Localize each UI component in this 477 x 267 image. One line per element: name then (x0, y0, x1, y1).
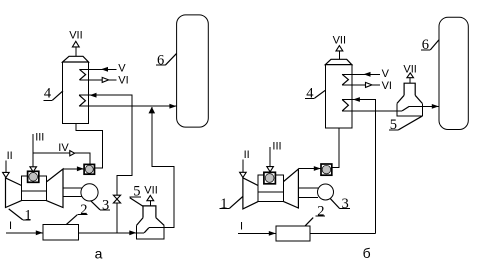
svg-text:II: II (7, 150, 13, 162)
turbine 1 box midline (b) (258, 191, 284, 193)
cooler 2 rectangle (43, 225, 78, 240)
arrow V (filled, left) (b) (364, 72, 371, 77)
wire V line (79, 68, 116, 70)
svg-text:6: 6 (422, 37, 429, 53)
label 3 leader (b) (330, 199, 339, 209)
column 4 body (63, 62, 89, 124)
arrow into coil2 (filled, left) (b) (353, 97, 360, 102)
wire coil2 bottom line to separator 5 (b) (342, 110, 402, 112)
arrow into cooler 2 (filled, right) (36, 230, 43, 235)
underline of label 3 (100, 209, 110, 211)
svg-text:6: 6 (157, 52, 164, 68)
machine 3 circle (81, 184, 98, 201)
svg-text:VI: VI (118, 74, 128, 86)
wire IV branch to combustor 2 (33, 153, 90, 164)
arrow II (open, down) (3, 172, 10, 177)
svg-text:V: V (382, 68, 390, 80)
separator tank lower box (137, 225, 165, 239)
separator vent triangle (open, up) (147, 195, 154, 200)
column 4 vent stem (b) (338, 51, 340, 59)
label 5 leader (b) (399, 116, 422, 130)
combustion chamber square 2 (b) (321, 164, 332, 175)
svg-text:IV: IV (58, 142, 69, 154)
wire II feed (b) (242, 160, 244, 173)
shaft lines to machine 3 (b) (298, 187, 318, 189)
wire turbine exhaust to combustor 2 (63, 168, 84, 170)
wire cooler 2 outlet to downcomer (b) (310, 232, 376, 234)
separator 5 vent stem (b) (409, 78, 411, 84)
wire II feed (5, 160, 7, 172)
svg-text:2: 2 (317, 203, 324, 219)
turbine 1 right trapezoid (turbine) (46, 169, 63, 208)
underline of label 1 (23, 219, 31, 221)
arrow III (open, down) (30, 167, 37, 172)
coil 2 chevron (column a lower) (79, 95, 85, 106)
separator tank (a) upper box (143, 206, 156, 218)
cooler 2 rectangle (b) (276, 226, 310, 241)
underline of label 6 (b) (421, 49, 430, 51)
svg-text:4: 4 (306, 85, 314, 101)
arrow into separator (filled, right) (129, 230, 136, 235)
svg-text:1: 1 (220, 196, 227, 212)
separator 5 vent triangle (b) (407, 73, 414, 78)
svg-text:VII: VII (69, 30, 82, 42)
combustion chamber square 1 (b) (264, 172, 276, 184)
wire coil2 bottom line to vessel 6 (79, 105, 176, 107)
svg-text:а: а (95, 245, 103, 261)
turbine 1 central box (22, 176, 47, 201)
label 2 leader (b) (305, 218, 313, 226)
separator tank slants (137, 218, 144, 226)
svg-text:III: III (35, 132, 44, 144)
wire turbine exhaust to combustor 2 (b) (298, 168, 321, 170)
underline of label 5 (b) (389, 129, 399, 131)
wire feed I (6, 232, 43, 234)
svg-text:V: V (118, 62, 126, 74)
wire VI line (b) (342, 84, 380, 86)
wire vapor riser from separator to vessel line (149, 107, 174, 228)
wire V line (b) (342, 73, 380, 75)
label 6 leader (b) (430, 40, 439, 51)
svg-text:1: 1 (24, 208, 31, 224)
arrow into vessel 6 (filled, right) (b) (432, 104, 439, 109)
wire cooler 2 to separator (78, 232, 136, 234)
vessel 6 (b) (439, 17, 468, 129)
underline of label 4 (43, 100, 52, 102)
combustion chamber square 1 (28, 171, 39, 182)
svg-text:VII: VII (144, 185, 157, 197)
coil 2 chevron (column b lower) (342, 100, 348, 111)
svg-text:4: 4 (44, 86, 52, 102)
shaft lines to machine 3 (63, 187, 83, 189)
column 4 dome (63, 56, 89, 62)
underline of label 6 (156, 64, 165, 66)
separator 5 lower box (b) (397, 103, 422, 115)
wire column bottom pipe (b) (332, 128, 339, 167)
turbine 1 left trapezoid (compressor) (6, 178, 22, 208)
wire separator 5 outlet to vessel 6 (b) (422, 105, 439, 107)
svg-text:I: I (240, 221, 243, 233)
arrow into vessel 6 (filled, right) (169, 104, 176, 109)
underline of label 3 (b) (340, 208, 350, 210)
combustion chamber square 2 (84, 164, 94, 174)
wire coil2 top line to downcomer (b) (342, 100, 375, 234)
wire column bottom pipe to combustor 2 (76, 124, 102, 169)
label 3 leader (91, 201, 101, 210)
arrow into coil2 (filled, left) (90, 93, 97, 98)
column 4 body (b) (325, 65, 352, 128)
arrow into cooler 2 (filled, right) (b) (269, 231, 276, 236)
svg-text:VII: VII (333, 35, 346, 47)
svg-text:3: 3 (342, 196, 349, 212)
turbine 1 right trapezoid (b) (284, 169, 299, 208)
label 6 leader (165, 53, 176, 65)
column 4 vent triangle (open, up) (72, 41, 79, 47)
wire feed I (b) (238, 232, 276, 234)
arrow III (open, down) (b) (267, 167, 274, 172)
underline of label 2 (77, 213, 87, 215)
wire valve to bottom line (116, 203, 118, 233)
arrow VI (open, right) (102, 77, 108, 82)
svg-text:VII: VII (403, 63, 416, 75)
label 1 leader (9, 209, 23, 220)
separator 5 internal weir (b) (409, 105, 422, 107)
label 5 leader (130, 198, 143, 207)
underline of label 1 (b) (220, 208, 230, 210)
separator 5 slants (b) (397, 95, 404, 103)
arrow up-merge (filled, up) (149, 107, 156, 114)
svg-text:II: II (244, 149, 250, 161)
underline of label 4 (b) (305, 97, 315, 99)
underline of label 2 (b) (316, 215, 325, 217)
label 1 leader (b) (230, 197, 243, 209)
column 4 vent triangle (b) (336, 46, 343, 51)
arrow into combustor 2 (filled, right) (b) (314, 166, 321, 171)
turbine 1 central box (b) (258, 175, 284, 202)
svg-text:2: 2 (80, 202, 87, 218)
svg-text:I: I (9, 220, 12, 232)
arrow VI (open, right) (b) (366, 82, 372, 87)
column 4 dome (b) (325, 59, 352, 64)
arrow II (open, down) (b) (240, 172, 247, 177)
wire coil2 top line to corner (79, 95, 132, 195)
machine 3 circle (b) (318, 184, 334, 200)
vessel 6 (a) (177, 15, 209, 127)
coil 1 chevron (column b) (342, 74, 348, 85)
coil 1 chevron (column a upper) (79, 69, 85, 80)
column 4 vent stem (75, 47, 77, 56)
separator vent stem (149, 201, 151, 206)
underline of label 5 (129, 196, 141, 198)
separator internal weir (144, 228, 149, 233)
svg-text:III: III (272, 141, 281, 153)
svg-text:3: 3 (102, 198, 109, 214)
valve 5 throttle (bowtie) (113, 195, 120, 199)
leader line of label 4 (52, 91, 63, 101)
svg-text:б: б (363, 245, 371, 261)
leader line of label 4 (b) (315, 90, 326, 98)
arrow V (filled, left) (101, 67, 108, 72)
svg-text:VI: VI (382, 80, 392, 92)
label 2 leader (66, 215, 77, 225)
separator 5 (b) upper box (404, 83, 415, 95)
wire III feed (32, 134, 34, 167)
arrow into combustor 2 (filled, right) (77, 166, 84, 171)
arrow IV (open, right) (70, 151, 75, 156)
turbine 1 box midline (22, 190, 47, 192)
turbine 1 left trapezoid (b) (243, 178, 258, 209)
wire III feed (b) (269, 147, 271, 167)
wire VI line (79, 79, 116, 81)
